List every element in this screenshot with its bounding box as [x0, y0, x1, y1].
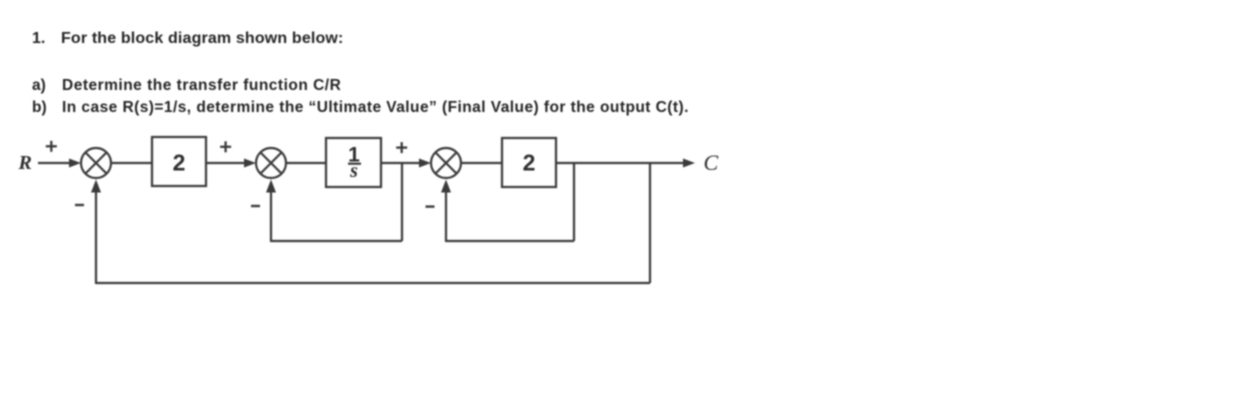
block G3 value 2	[502, 138, 556, 187]
arrowhead at output C	[683, 159, 695, 168]
plus sign at summer S3	[396, 142, 407, 153]
arrowhead into summer S3 bottom	[441, 180, 451, 193]
wire summer S3 to block G3	[461, 162, 502, 164]
input R label	[18, 152, 32, 174]
problem text line b	[32, 100, 47, 116]
wire input R to summer S1	[38, 162, 73, 164]
summing junction S3	[431, 148, 461, 178]
outer feedback wire : takeoff drop at output	[649, 163, 651, 283]
wire block G2 to summer S3	[381, 162, 423, 164]
arrowhead into summer S2 bottom	[266, 180, 276, 193]
feedback wire loop H2 riser to summer S2	[270, 190, 272, 242]
wire summer S1 to block G1	[111, 162, 152, 164]
svg-text:2: 2	[173, 149, 186, 175]
outer feedback wire riser to summer S1	[95, 190, 97, 284]
block G1 value 2	[152, 137, 206, 186]
svg-text:C: C	[704, 150, 719, 175]
output C label	[704, 150, 719, 175]
arrowhead into summer S1 bottom	[91, 180, 101, 193]
plus sign at summer S2	[220, 141, 231, 152]
feedback wire loop H3 riser to summer S3	[445, 190, 447, 242]
problem text line a	[32, 78, 46, 94]
feedback wire loop H3 around block G3 : takeoff drop	[573, 163, 575, 241]
plus sign at summer S1	[46, 141, 57, 152]
block G2 value 1/s	[326, 138, 381, 187]
svg-text:s: s	[349, 160, 358, 182]
arrowhead into summer S2	[244, 159, 256, 168]
outer feedback wire bottom run	[96, 282, 650, 284]
arrowhead into summer S1	[69, 159, 81, 168]
feedback wire loop H3 bottom run	[446, 240, 574, 242]
arrowhead into summer S3	[419, 159, 431, 168]
svg-text:R: R	[18, 152, 32, 174]
minus sign at summer S2	[251, 205, 260, 207]
problem text line 1	[32, 31, 45, 47]
minus sign at summer S1	[75, 204, 84, 206]
wire summer S2 to block G2	[286, 162, 326, 164]
summing junction S2	[256, 148, 286, 178]
svg-text:2: 2	[523, 149, 536, 175]
feedback wire loop H2 around 1/s : takeoff drop	[401, 163, 403, 241]
summing junction S1	[81, 148, 111, 178]
wire block G3 to output C	[556, 162, 686, 164]
wire block G1 to summer S2	[206, 162, 248, 164]
minus sign at summer S3	[426, 205, 435, 207]
feedback wire loop H2 bottom run	[271, 240, 402, 242]
